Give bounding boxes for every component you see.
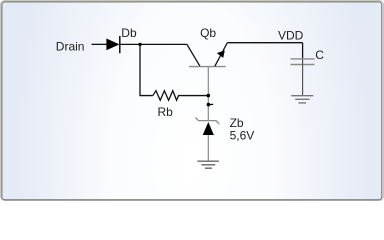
node A junction dot	[138, 43, 141, 46]
transistor Qb collector lead	[187, 44, 200, 66]
capacitor C	[291, 59, 315, 65]
svg-text:Qb: Qb	[200, 26, 216, 40]
label Drain	[56, 40, 85, 54]
resistor Rb	[153, 91, 207, 101]
label Qb	[200, 26, 216, 40]
label Db	[121, 26, 137, 40]
wire VDD corner down to capacitor	[302, 43, 304, 59]
label 5,6V	[230, 129, 255, 143]
ground under capacitor	[291, 96, 313, 103]
node B junction dot (Rb to base)	[207, 94, 211, 98]
label VDD	[278, 29, 304, 43]
wire capacitor to ground	[302, 59, 304, 96]
wire Drain to diode anode	[92, 43, 107, 45]
svg-text:Db: Db	[121, 26, 137, 40]
zener diode Zb	[195, 117, 219, 161]
transistor Qb base bar	[189, 66, 226, 68]
transistor base lead wire down	[207, 67, 209, 121]
svg-text:C: C	[315, 48, 324, 62]
wire node A down to Rb	[140, 44, 153, 95]
svg-text:5,6V: 5,6V	[230, 129, 255, 143]
svg-text:VDD: VDD	[278, 29, 304, 43]
ground under zener	[197, 161, 219, 168]
wire diode cathode to node A	[120, 43, 140, 45]
wire emitter to VDD corner	[227, 42, 302, 44]
node C junction dot (zener top)	[207, 103, 214, 107]
label Zb	[230, 116, 244, 130]
transistor Qb emitter lead	[215, 43, 228, 67]
svg-text:Rb: Rb	[158, 105, 174, 119]
label Rb	[158, 105, 174, 119]
wire node A to collector	[140, 43, 187, 45]
svg-text:Drain: Drain	[56, 40, 85, 54]
transistor Qb emitter arrow	[217, 50, 225, 58]
label C	[315, 48, 324, 62]
diode Db	[106, 36, 119, 53]
